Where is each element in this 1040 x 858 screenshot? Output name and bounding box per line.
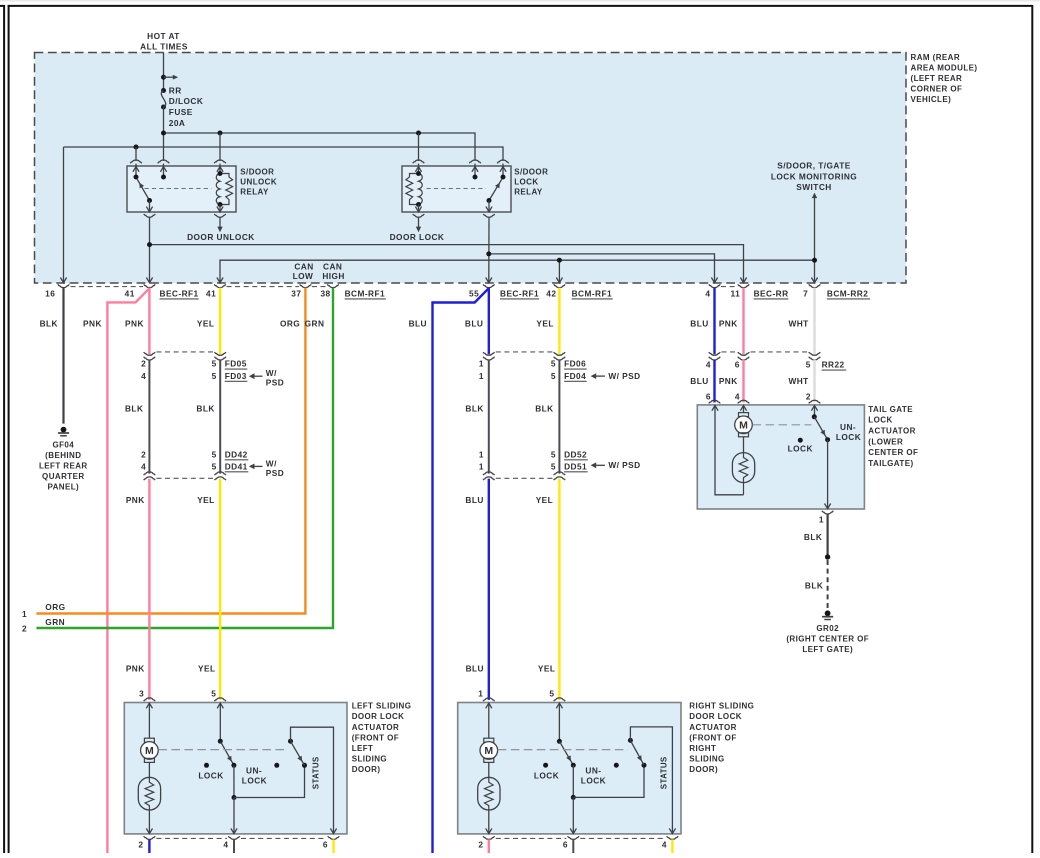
svg-text:UNLOCK: UNLOCK [240, 178, 277, 187]
connector BCM-RF1 name [345, 289, 386, 299]
svg-text:CENTER OF: CENTER OF [868, 448, 918, 457]
svg-text:PNK: PNK [719, 376, 738, 386]
svg-text:BLU: BLU [690, 318, 708, 328]
svg-text:(BEHIND: (BEHIND [45, 451, 81, 460]
actuator M3 label [868, 405, 918, 468]
wire left coil feed from bus [219, 133, 221, 161]
inline connector dashed link FD row left [156, 351, 213, 353]
svg-text:3: 3 [139, 689, 144, 699]
connector FD05 name [225, 359, 248, 369]
svg-text:SLIDING: SLIDING [689, 755, 724, 764]
svg-text:BLK: BLK [805, 580, 823, 590]
wire WHT pin7 down [813, 288, 815, 355]
svg-text:(FRONT OF: (FRONT OF [352, 733, 399, 742]
ground GR02 symbol [822, 610, 833, 619]
svg-text:LOW: LOW [293, 271, 314, 281]
svg-text:2: 2 [138, 839, 143, 849]
svg-text:GRN: GRN [45, 617, 65, 627]
svg-text:5: 5 [212, 359, 217, 369]
svg-text:ACTUATOR: ACTUATOR [689, 723, 737, 732]
svg-text:LEFT GATE): LEFT GATE) [802, 645, 853, 654]
svg-text:5: 5 [212, 449, 217, 459]
svg-text:PSD: PSD [266, 468, 284, 478]
svg-text:37: 37 [291, 289, 301, 299]
svg-text:4: 4 [735, 391, 740, 401]
svg-text:ACTUATOR: ACTUATOR [352, 723, 400, 732]
wire lock bus to pins 55 and 4 [486, 217, 714, 282]
connector DD42 name [225, 449, 249, 459]
svg-text:6: 6 [735, 360, 740, 370]
svg-text:6: 6 [706, 391, 711, 401]
switch S1 S/DOOR T/GATE LOCK MONITORING SWITCH [771, 160, 857, 198]
ground GF04 label [39, 440, 88, 491]
RAM module label [911, 53, 978, 104]
svg-text:4: 4 [662, 839, 667, 849]
wire BLK below right actuator pin6 [572, 839, 574, 853]
svg-text:2: 2 [22, 624, 27, 634]
tailgate LOCK contact dot [788, 438, 813, 454]
svg-text:DD51: DD51 [564, 461, 587, 471]
svg-text:ORG: ORG [280, 318, 300, 328]
left actuator bottom pin bumps and numbers [138, 836, 339, 849]
svg-text:FD04: FD04 [564, 371, 586, 381]
wire BLU pin55 down [488, 288, 490, 355]
svg-text:BLK: BLK [804, 532, 822, 542]
wire BLU below left actuator pin2 [148, 839, 150, 853]
tailgate column inline connector RR22 blue [706, 352, 720, 370]
svg-text:(FRONT OF: (FRONT OF [689, 733, 736, 742]
svg-text:CAN: CAN [323, 262, 342, 272]
right actuator LOCK contact dot [534, 763, 559, 781]
svg-text:RIGHT SLIDING: RIGHT SLIDING [689, 702, 754, 711]
svg-text:BLK: BLK [125, 403, 143, 413]
svg-text:D/LOCK: D/LOCK [169, 96, 204, 106]
svg-text:(RIGHT CENTER OF: (RIGHT CENTER OF [786, 635, 869, 644]
svg-text:PNK: PNK [719, 318, 738, 328]
svg-text:BEC-RF1: BEC-RF1 [500, 289, 539, 299]
wire BLU to tailgate pin6 [713, 360, 715, 403]
wire BLU lower to right actuator [488, 479, 490, 700]
tailgate pin 2 bump and number [806, 391, 820, 403]
svg-text:CAN: CAN [294, 262, 313, 272]
RAM connector row exit arrows [60, 278, 817, 283]
lamp tailgate position indicator [732, 453, 754, 495]
RAM module dashed box [35, 53, 907, 284]
svg-text:LOCK: LOCK [242, 776, 267, 786]
relay K1 S/DOOR UNLOCK RELAY [127, 160, 236, 217]
inline connector dashed link DD row left [156, 477, 213, 479]
relay K1 label [240, 167, 277, 196]
wire bus B+ y=133 to both relay coils [161, 131, 475, 161]
svg-text:5: 5 [211, 689, 216, 699]
svg-text:2: 2 [478, 839, 483, 849]
svg-text:5: 5 [549, 689, 554, 699]
svg-text:5: 5 [551, 359, 556, 369]
right actuator bottom pin bumps and numbers [478, 836, 678, 849]
svg-text:1: 1 [819, 514, 824, 524]
svg-text:YEL: YEL [536, 495, 554, 505]
svg-text:4: 4 [705, 289, 710, 299]
svg-text:2: 2 [806, 391, 811, 401]
svg-text:41: 41 [206, 289, 216, 299]
svg-text:2: 2 [141, 359, 146, 369]
left actuator motor linkage dashed [158, 749, 288, 751]
wire BLK mid yellow column right [558, 360, 560, 474]
svg-text:AREA MODULE): AREA MODULE) [911, 64, 978, 73]
inline connector DD42/DD41 yellow column [212, 449, 226, 480]
svg-text:BCM-RR2: BCM-RR2 [827, 289, 868, 299]
actuator M1 LEFT SLIDING DOOR LOCK ACTUATOR box [124, 703, 347, 834]
svg-text:BCM-RF1: BCM-RF1 [345, 289, 385, 299]
svg-text:55: 55 [469, 289, 479, 299]
svg-text:5: 5 [551, 461, 556, 471]
svg-text:DOOR LOCK: DOOR LOCK [390, 232, 445, 242]
wire WHT to tailgate pin2 [813, 360, 815, 403]
svg-text:WHT: WHT [788, 376, 808, 386]
svg-text:YEL: YEL [536, 318, 554, 328]
svg-text:YEL: YEL [197, 495, 215, 505]
wire unlock bus to pins 41 and 11 [147, 217, 744, 282]
svg-text:1: 1 [479, 461, 484, 471]
svg-text:LOCK MONITORING: LOCK MONITORING [771, 171, 857, 181]
ground GR02 label [786, 624, 869, 654]
svg-text:LOCK: LOCK [198, 770, 223, 780]
wire BLK mid pink column [148, 360, 150, 474]
svg-text:S/DOOR, T/GATE: S/DOOR, T/GATE [777, 160, 850, 170]
svg-text:S/DOOR: S/DOOR [240, 167, 274, 176]
svg-text:LOCK: LOCK [581, 776, 606, 786]
wire ORG CAN LOW with left bend [36, 288, 305, 614]
svg-text:STATUS: STATUS [659, 756, 668, 789]
connector BEC-RR name [754, 289, 789, 299]
actuator M1 label [352, 702, 412, 775]
svg-text:11: 11 [731, 289, 741, 299]
svg-text:BLK: BLK [465, 403, 483, 413]
svg-text:6: 6 [323, 839, 328, 849]
tailgate pin 6 bump and number [706, 391, 720, 403]
RAM connector row bumps [58, 284, 820, 287]
svg-text:BLU: BLU [466, 663, 484, 673]
svg-text:BCM-RF1: BCM-RF1 [572, 289, 612, 299]
svg-text:DD41: DD41 [225, 461, 248, 471]
net CAN HIGH label [322, 262, 345, 282]
svg-text:20A: 20A [169, 118, 186, 128]
inline connector dashed link DD row right [496, 477, 553, 479]
svg-text:BLU: BLU [465, 495, 483, 505]
actuator M2 RIGHT SLIDING DOOR LOCK ACTUATOR box [458, 703, 681, 834]
wire BLK mid yellow column [219, 360, 221, 474]
svg-text:5: 5 [806, 360, 811, 370]
svg-text:DD42: DD42 [225, 449, 248, 459]
svg-text:UN-: UN- [840, 422, 856, 432]
wire YEL below right actuator pin4 [671, 839, 673, 853]
svg-text:RAM (REAR: RAM (REAR [911, 53, 961, 62]
inline connector FD05/FD03 pink column [141, 352, 155, 381]
svg-text:7: 7 [803, 289, 808, 299]
svg-text:41: 41 [125, 289, 135, 299]
svg-text:1: 1 [479, 359, 484, 369]
tailgate pin 1 bump and number [819, 511, 833, 525]
svg-text:M: M [484, 745, 493, 757]
wire battery feed into fuse [163, 53, 165, 91]
svg-text:RR22: RR22 [822, 360, 845, 370]
inline connector FD06/FD04 yellow column [551, 352, 565, 381]
svg-text:(LOWER: (LOWER [868, 437, 903, 446]
connector BCM-RF1 second name [572, 289, 613, 299]
svg-text:FUSE: FUSE [169, 107, 193, 117]
svg-text:DOOR): DOOR) [352, 765, 381, 774]
svg-text:PSD: PSD [266, 378, 284, 388]
svg-text:4: 4 [141, 461, 146, 471]
right actuator switch 2 status [628, 727, 676, 834]
actuator M2 label [689, 702, 754, 775]
connector RR22 name [822, 360, 847, 370]
wire PNK below right actuator pin2 [488, 839, 490, 853]
svg-text:W/ PSD: W/ PSD [608, 371, 640, 381]
svg-text:BLU: BLU [690, 376, 708, 386]
actuator M3 TAIL GATE LOCK ACTUATOR box [697, 405, 864, 509]
svg-text:DOOR UNLOCK: DOOR UNLOCK [187, 232, 255, 242]
svg-text:S/DOOR: S/DOOR [514, 167, 548, 176]
svg-text:42: 42 [546, 289, 556, 299]
svg-text:PNK: PNK [126, 663, 145, 673]
svg-text:DD52: DD52 [564, 449, 587, 459]
wire PNK lower to left actuator [148, 479, 150, 700]
net DOOR UNLOCK reference arrow [187, 217, 255, 242]
svg-text:RELAY: RELAY [240, 188, 269, 197]
lamp right actuator indicator [478, 777, 500, 833]
left actuator switch 2 status [288, 727, 337, 833]
connector BEC-RF1 name [160, 289, 199, 299]
svg-text:2: 2 [141, 449, 146, 459]
inline connector DD52/DD51 yellow column [551, 449, 565, 480]
connector BCM-RR2 name [827, 289, 870, 299]
svg-text:PNK: PNK [83, 318, 102, 328]
svg-text:4: 4 [141, 371, 146, 381]
fuse value label [169, 85, 204, 127]
svg-text:PNK: PNK [125, 318, 144, 328]
svg-text:BLK: BLK [535, 403, 553, 413]
svg-text:LOCK: LOCK [514, 178, 538, 187]
svg-text:BLK: BLK [196, 403, 214, 413]
wire pin16 ground drop inside module [63, 147, 65, 283]
svg-text:LEFT REAR: LEFT REAR [39, 461, 88, 470]
wire YEL pin41 down [219, 288, 221, 355]
svg-text:DOOR): DOOR) [689, 765, 718, 774]
right actuator top bumps [483, 698, 565, 701]
wire BLK below left actuator pin4 [233, 839, 235, 853]
left actuator switch 1 unlock [217, 703, 307, 834]
svg-text:STATUS: STATUS [311, 756, 320, 789]
svg-text:RELAY: RELAY [514, 188, 543, 197]
svg-text:QUARTER: QUARTER [42, 472, 85, 481]
svg-text:CORNER OF: CORNER OF [911, 84, 963, 93]
tailgate column inline connector RR22 pink [735, 352, 749, 370]
svg-text:BLU: BLU [409, 318, 427, 328]
svg-text:4: 4 [706, 360, 711, 370]
wire BLU branch diagonal to page bottom [433, 288, 489, 853]
wire PNK pin11 down [742, 288, 744, 355]
svg-text:SLIDING: SLIDING [352, 755, 387, 764]
svg-text:5: 5 [551, 449, 556, 459]
fuse RR D/LOCK FUSE 20A [161, 88, 166, 110]
svg-text:PNK: PNK [126, 495, 145, 505]
connector DD51 name with W/ PSD note [564, 460, 641, 472]
junction dot BLK splice [825, 554, 830, 559]
inline connector dashed link FD row right [496, 351, 553, 353]
inline connector FD06/FD04 blue column [479, 352, 495, 381]
connector DD41 name with W/ PSD note [225, 458, 285, 478]
left actuator LOCK contact dot [198, 763, 223, 781]
svg-text:6: 6 [563, 839, 568, 849]
svg-text:ALL TIMES: ALL TIMES [140, 41, 188, 51]
wire status bus to pins 41 42 7 [220, 197, 817, 283]
svg-text:VEHICLE): VEHICLE) [911, 95, 952, 104]
svg-text:M: M [145, 745, 154, 757]
wire BLK dashed to ground [827, 560, 829, 610]
motor M1 left actuator [141, 703, 159, 777]
svg-text:FD05: FD05 [225, 359, 247, 369]
tailgate pin 4 bump and number [735, 391, 749, 403]
tailgate internal left return wire [712, 406, 744, 495]
wire BLK mid blue column [488, 360, 490, 474]
svg-text:W/ PSD: W/ PSD [608, 460, 640, 470]
right actuator switch 1 unlock [556, 703, 646, 834]
net DOOR LOCK reference arrow [390, 217, 445, 242]
motor M3 tailgate [735, 406, 753, 453]
wire bus ground y=147 to relay switches [64, 145, 504, 161]
svg-text:WHT: WHT [788, 318, 808, 328]
svg-text:BLU: BLU [465, 318, 483, 328]
svg-text:UN-: UN- [246, 766, 262, 776]
svg-text:(LEFT REAR: (LEFT REAR [911, 74, 963, 83]
right actuator UN-LOCK label and contact dot [581, 763, 619, 786]
wire BLU pin4 down [713, 288, 715, 355]
node HOT AT ALL TIMES [140, 31, 188, 51]
svg-text:FD03: FD03 [225, 371, 247, 381]
svg-text:W/: W/ [266, 368, 277, 378]
svg-text:HIGH: HIGH [322, 271, 345, 281]
left actuator UN-LOCK label and contact dot [242, 763, 279, 786]
svg-text:BEC-RF1: BEC-RF1 [160, 289, 199, 299]
svg-text:5: 5 [212, 461, 217, 471]
svg-text:1: 1 [479, 371, 484, 381]
svg-text:38: 38 [320, 289, 330, 299]
tailgate column inline connector RR22 white [806, 352, 820, 370]
wire YEL lower to right actuator [558, 479, 560, 700]
wire YEL pin42 down [558, 288, 560, 355]
wire left switch feed [135, 147, 137, 161]
inline connector dashed link RR22 row [722, 351, 809, 353]
svg-text:16: 16 [45, 289, 55, 299]
svg-text:TAILGATE): TAILGATE) [868, 459, 913, 468]
svg-text:BEC-RR: BEC-RR [754, 289, 789, 299]
relay K2 label [514, 167, 548, 196]
svg-text:RR: RR [169, 85, 182, 95]
svg-text:YEL: YEL [198, 663, 216, 673]
svg-text:RIGHT: RIGHT [689, 744, 716, 753]
wire PNK pin41 down [148, 288, 150, 355]
svg-text:UN-: UN- [585, 766, 601, 776]
junction branch arrow right [161, 75, 178, 80]
connector FD04 name with W/ PSD note [564, 371, 641, 381]
svg-text:4: 4 [223, 839, 228, 849]
svg-text:DOOR LOCK: DOOR LOCK [352, 712, 405, 721]
connector DD52 name [564, 449, 588, 459]
wire PNK branch diagonal to page bottom [107, 288, 149, 853]
svg-text:LOCK: LOCK [836, 432, 861, 442]
connector FD03 name with W/ PSD note [225, 368, 285, 388]
wire GRN CAN HIGH with left bend [36, 288, 333, 628]
inline connector DD42/DD41 pink column [141, 449, 155, 480]
right actuator motor linkage dashed [498, 749, 628, 751]
svg-text:YEL: YEL [197, 318, 215, 328]
motor M2 right actuator [480, 703, 498, 777]
svg-text:HOT AT: HOT AT [147, 31, 180, 41]
wire PNK to tailgate pin4 [742, 360, 744, 403]
svg-text:GR02: GR02 [816, 624, 839, 633]
relay K2 S/DOOR LOCK RELAY [402, 160, 511, 217]
svg-text:DOOR LOCK: DOOR LOCK [689, 712, 742, 721]
net CAN LOW label [293, 262, 314, 282]
tailgate UN-LOCK label [836, 422, 861, 442]
svg-text:LEFT: LEFT [352, 744, 374, 753]
connector BEC-RF1 second name [500, 289, 539, 299]
svg-text:LEFT SLIDING: LEFT SLIDING [352, 702, 412, 711]
switch tailgate lock/unlock [811, 406, 830, 509]
svg-text:YEL: YEL [538, 663, 556, 673]
svg-text:ORG: ORG [45, 602, 65, 612]
wire YEL lower to left actuator [219, 479, 221, 700]
svg-text:LOCK: LOCK [534, 770, 559, 780]
svg-text:BLK: BLK [40, 318, 58, 328]
svg-text:PANEL): PANEL) [47, 482, 79, 491]
svg-text:GRN: GRN [305, 318, 325, 328]
wire BLK pin16 to ground [62, 288, 64, 424]
inline connector DD52/DD51 blue column [479, 449, 495, 480]
wire fuse output down to relay pin [163, 107, 165, 161]
svg-text:ACTUATOR: ACTUATOR [868, 427, 916, 436]
wire right coil feed from bus [418, 133, 420, 161]
svg-text:1: 1 [478, 689, 483, 699]
svg-text:W/: W/ [266, 458, 277, 468]
svg-text:TAIL GATE: TAIL GATE [868, 405, 913, 414]
left actuator top bumps [144, 698, 226, 701]
svg-text:5: 5 [551, 371, 556, 381]
svg-text:SWITCH: SWITCH [796, 182, 831, 192]
svg-text:LOCK: LOCK [868, 416, 892, 425]
svg-text:GF04: GF04 [52, 440, 74, 449]
ground GF04 symbol [58, 427, 69, 436]
svg-text:M: M [739, 419, 748, 431]
lamp left actuator indicator [138, 777, 160, 833]
svg-text:LOCK: LOCK [788, 444, 813, 454]
svg-text:5: 5 [212, 371, 217, 381]
svg-text:1: 1 [22, 609, 27, 619]
tailgate motor linkage dashed [753, 424, 812, 426]
wire BLK tailgate to ground [826, 514, 828, 557]
wire YEL below left actuator pin6 [332, 839, 334, 853]
svg-text:FD06: FD06 [564, 359, 586, 369]
svg-text:1: 1 [479, 449, 484, 459]
inline connector FD05/FD03 yellow column [212, 352, 226, 381]
connector FD06 name [564, 359, 587, 369]
